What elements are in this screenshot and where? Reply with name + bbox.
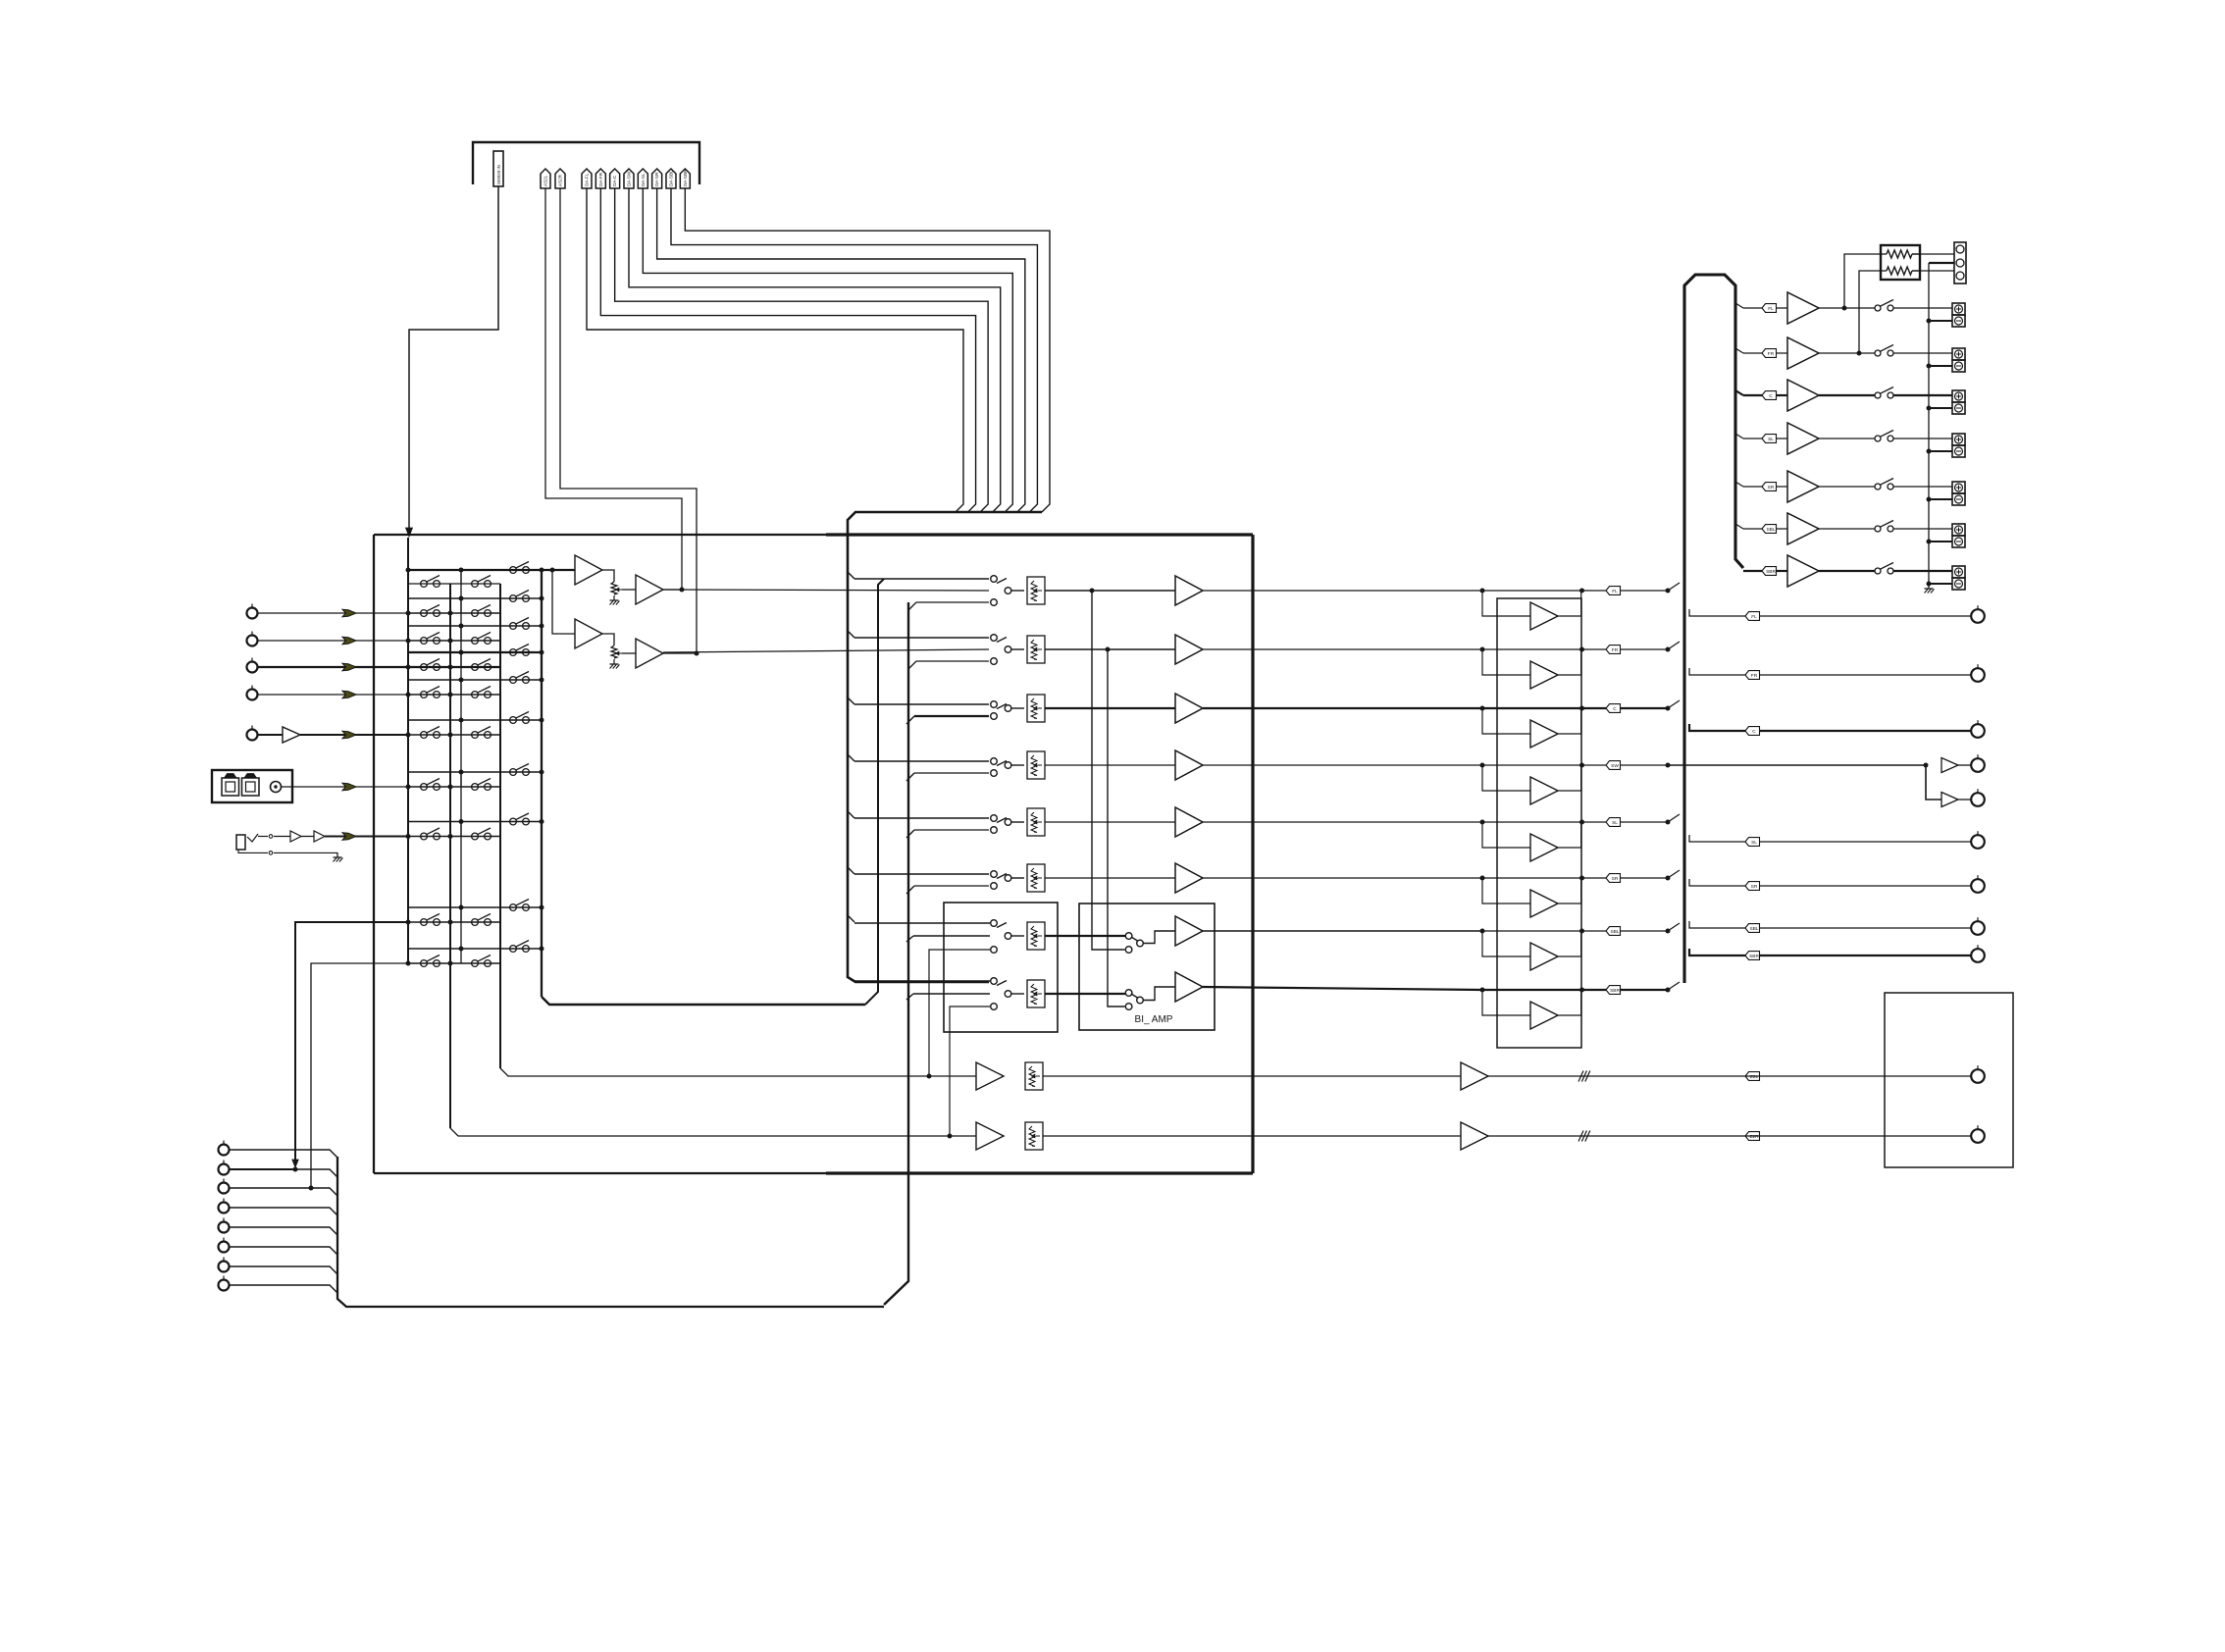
wire J1 to selector	[258, 612, 408, 614]
wire flag to amp	[1777, 307, 1788, 309]
wire flag to amp	[1777, 486, 1788, 488]
wire R-load2 out	[1912, 270, 1954, 272]
jack preout FL	[1971, 609, 1985, 623]
node row9 listen-bus	[540, 947, 544, 952]
switch row4 rec-a	[408, 694, 500, 696]
pot volume5	[1027, 808, 1045, 836]
wire row3 top feed	[854, 703, 989, 705]
pot fvol1	[1027, 922, 1045, 950]
wire J3 to selector	[258, 666, 408, 668]
switch row5 listen	[408, 719, 542, 721]
wire multi-in FR	[230, 1168, 295, 1170]
jack J1 CD L	[247, 608, 258, 619]
switch row8 listen	[408, 906, 542, 908]
wire fvol2 out	[1045, 993, 1125, 995]
wire zone1 out	[1488, 1075, 1971, 1077]
buffer U2b	[636, 639, 663, 668]
wire tap to buffer2	[552, 570, 575, 634]
node fb-SBR out	[1579, 988, 1584, 993]
wire FR sense	[1859, 271, 1881, 353]
flag preout SR	[1745, 882, 1760, 891]
connector flag DA-SBR	[680, 169, 690, 188]
flag preout SBL	[1745, 924, 1760, 933]
connector flag DA-SBL	[666, 169, 676, 188]
switch row1 listen	[408, 597, 542, 599]
wire row4 stubs	[407, 680, 409, 695]
wire FR to bus	[1668, 642, 1680, 649]
buffer U5a	[283, 727, 300, 743]
wire fb-C out	[1482, 707, 1606, 709]
flag amp SBR	[1762, 567, 1777, 576]
wire J2 to selector	[258, 640, 408, 642]
wire biamp1 out	[1203, 930, 1482, 932]
wire relay to terminal SBL	[1893, 528, 1952, 530]
bus tap vertical	[460, 570, 462, 949]
speaker terminal FL	[1952, 303, 1965, 315]
wire terminal return C	[1929, 407, 1952, 409]
optical port 2	[242, 778, 260, 796]
node row0	[406, 568, 411, 573]
buffer fb-SL	[1482, 822, 1530, 848]
svg-text:DA-SW: DA-SW	[626, 171, 631, 186]
flag C	[1606, 704, 1621, 713]
node arrow digital	[342, 783, 356, 791]
buffer U6b	[314, 831, 325, 842]
wire DA-FR route	[600, 188, 975, 512]
switch row3 listen	[408, 651, 542, 653]
node SR split	[1666, 876, 1671, 881]
node fb-SW in	[1480, 763, 1485, 768]
jack preout SR	[1971, 879, 1985, 893]
svg-text:Z2R: Z2R	[1749, 1134, 1759, 1140]
wire fb-SR out	[1482, 877, 1606, 879]
wire DM939_IN to main-in	[409, 186, 498, 530]
buffer fb-SBL	[1482, 931, 1530, 956]
node row3 taps	[406, 665, 411, 670]
node wiper2	[616, 651, 620, 655]
wire terminal return SBR	[1929, 583, 1952, 585]
wire row1 to buffer	[1045, 590, 1175, 592]
wire U2a out	[663, 589, 682, 591]
wire rec2-bus to zone1	[500, 1068, 976, 1076]
wire row2 to buffer	[1045, 648, 1175, 650]
wire speaker common	[1929, 262, 1954, 264]
wire flag to amp	[1777, 570, 1788, 572]
wire DA-C route	[615, 188, 988, 512]
wire multi-in SBL	[230, 1266, 337, 1274]
wire fb-FL out	[1482, 590, 1606, 592]
svg-text:C: C	[1752, 729, 1756, 735]
wire buffer to selector	[300, 734, 408, 736]
node arrow J1	[342, 609, 356, 617]
switch SW-f1	[991, 920, 998, 927]
svg-text:DA-FR: DA-FR	[598, 172, 603, 186]
wire amp SBR stub	[1743, 570, 1762, 572]
switch row9 listen	[408, 948, 542, 950]
pot zone1	[1025, 1062, 1043, 1090]
connector flag AS2R	[555, 169, 565, 188]
speaker terminal SL	[1952, 434, 1965, 445]
buffer fb-C	[1482, 708, 1530, 734]
node fb-SL in	[1480, 820, 1485, 825]
wire to buffer	[274, 836, 290, 838]
node row9 taps	[406, 961, 411, 966]
wire amp FL stub	[1735, 303, 1743, 308]
buffer sw-b	[1941, 793, 1958, 807]
node fb-C out	[1579, 706, 1584, 711]
pot VR1	[611, 582, 617, 594]
wire row5 to buffer	[1045, 821, 1175, 823]
buffer vol1	[1175, 576, 1203, 605]
jack portable-in	[236, 835, 245, 850]
buffer U1a	[575, 555, 602, 585]
wire SW line	[1668, 764, 1926, 766]
svg-text:Z2L: Z2L	[1750, 1074, 1759, 1080]
jack multi-in SL	[219, 1222, 230, 1233]
connector flag DA-FL	[582, 169, 592, 188]
optical input module	[212, 770, 292, 802]
buffer fb-SR	[1482, 878, 1530, 903]
node row1 listen-bus	[540, 596, 544, 601]
wire multi-in SBR	[230, 1285, 337, 1293]
wire row4 top feed	[854, 760, 989, 762]
flag Z2L	[1745, 1072, 1760, 1081]
node fb-FL in	[1480, 589, 1485, 594]
wire row1 out	[1203, 590, 1482, 592]
speaker terminal SBL	[1952, 524, 1965, 536]
speaker terminal SR	[1952, 482, 1965, 493]
wire multi-in SW	[230, 1208, 337, 1215]
load resistor block	[1881, 245, 1920, 280]
wire zone2	[1043, 1135, 1461, 1137]
bus direct vertical	[884, 602, 908, 1305]
buffer vol6	[1175, 863, 1203, 893]
svg-text:SBL: SBL	[1749, 926, 1758, 932]
node row6 taps	[406, 785, 411, 790]
switch row0 rec	[408, 583, 500, 585]
svg-text:SBR: SBR	[1749, 954, 1759, 959]
wire biamp1 common	[1143, 931, 1175, 944]
switch biamp2	[1125, 990, 1132, 997]
svg-text:SBR: SBR	[1766, 569, 1776, 575]
node arrow J2	[342, 637, 356, 645]
switch SW-in3	[991, 701, 998, 708]
buffer fb-SBR	[1482, 990, 1530, 1015]
wire relay to terminal SBR	[1893, 570, 1952, 572]
flag amp FL	[1762, 304, 1777, 313]
wire rec1-bus to zone2	[450, 1128, 976, 1136]
buffer vol3	[1175, 694, 1203, 723]
wire subrow2 zone tap	[950, 1007, 990, 1136]
wire amp out SR	[1819, 486, 1875, 488]
jump zone1	[1578, 1071, 1583, 1082]
node fb-FL out	[1579, 589, 1584, 594]
wire row6 out	[1203, 877, 1482, 879]
svg-text:DA-SL: DA-SL	[641, 173, 646, 186]
connector flag DA-SL	[638, 169, 647, 188]
buffer U6a	[290, 831, 301, 842]
jack coax digital	[271, 782, 282, 793]
wire row3 stubs	[407, 652, 409, 667]
wire row5 top feed	[854, 817, 989, 819]
wire fb-SL out	[1482, 821, 1606, 823]
wire flag to amp	[1777, 438, 1788, 439]
flag SR	[1606, 874, 1621, 883]
node arrow J3	[342, 663, 356, 671]
node row1 taps	[406, 611, 411, 616]
power amp FL	[1787, 292, 1819, 324]
wire sw branch	[1926, 765, 1941, 800]
buffer fb-FL	[1482, 591, 1530, 616]
wire FL to bus	[1668, 583, 1680, 591]
jack preout SBL	[1971, 921, 1985, 935]
buffer U1b	[575, 619, 602, 648]
wire row2 stubs	[407, 626, 409, 641]
node row7 listen-bus	[540, 819, 544, 824]
svg-text:DA-SBR: DA-SBR	[683, 169, 688, 186]
wire amp out SBL	[1819, 528, 1875, 530]
node fb-FR out	[1579, 647, 1584, 652]
pot volume3	[1027, 695, 1045, 722]
wire subrow1 zone tap	[929, 950, 990, 1076]
wire wiper to U2b	[622, 652, 636, 654]
node multi L arrow	[292, 1160, 298, 1167]
svg-text:SBL: SBL	[1766, 527, 1775, 533]
wire preout SBR	[1689, 949, 1745, 955]
node C split	[1666, 706, 1671, 711]
resistor R-load2	[1881, 270, 1887, 272]
wire FR biamp feed	[1108, 649, 1125, 1007]
wire row1 down feed	[916, 601, 989, 603]
buffer zone1b	[1461, 1062, 1488, 1090]
wire to selector	[325, 836, 408, 838]
wire row5 out	[1203, 821, 1482, 823]
switch relay SR	[1875, 484, 1881, 490]
switch row3 rec-a	[408, 666, 500, 668]
wire row1 analog feed	[663, 590, 989, 591]
zone2 output block	[1885, 993, 2013, 1167]
flag amp SBL	[1762, 525, 1777, 534]
connector flag DA-C	[610, 169, 620, 188]
wire row5 bottom feed	[914, 829, 989, 831]
node SW split	[1666, 763, 1671, 768]
flag preout FL	[1745, 612, 1760, 621]
bus power-amp loop	[1684, 275, 1743, 983]
buffer zone2b	[1461, 1122, 1488, 1150]
flag Z2R	[1745, 1132, 1760, 1141]
wire relay to terminal FR	[1893, 352, 1952, 354]
wire row2 down feed	[916, 660, 989, 662]
svg-text:DA-SBL: DA-SBL	[668, 170, 673, 186]
wire row4 to buffer	[1045, 764, 1175, 766]
wire multi-in FL	[230, 1150, 337, 1158]
wire fvol1 out	[1045, 935, 1125, 937]
wire row2 analog feed	[663, 649, 989, 652]
wire DA-SBR route	[685, 188, 1050, 512]
wire row2 out	[1203, 648, 1482, 650]
wire terminal return FL	[1929, 320, 1952, 322]
node multi R tap	[309, 1186, 314, 1191]
node SBR split	[1666, 988, 1671, 993]
svg-text:SR: SR	[1768, 485, 1775, 490]
buffer zone2a	[976, 1122, 1004, 1150]
wire DA-SW route	[629, 188, 1001, 512]
pot volume4	[1027, 751, 1045, 779]
wire buffer1	[602, 570, 614, 582]
svg-text:DA-SR: DA-SR	[654, 172, 659, 186]
wire preout C	[1689, 724, 1745, 731]
wire SBL to bus	[1668, 923, 1680, 931]
terminal block AB	[1954, 242, 1966, 284]
pot volume2	[1027, 636, 1045, 663]
node arrow J4	[342, 691, 356, 698]
wire elbow riser to row1	[865, 579, 884, 1005]
ground VR1	[613, 595, 615, 600]
wire fb-FR out	[1482, 648, 1606, 650]
node fb-SR out	[1579, 876, 1584, 881]
bus rec-2 vertical	[499, 584, 501, 1068]
switch SW-in2	[991, 635, 998, 642]
power amp SL	[1787, 423, 1819, 454]
node FL split	[1666, 589, 1671, 594]
wire DA-SBL route	[671, 188, 1037, 512]
front volume sub-block	[944, 903, 1058, 1032]
wire subrow1 dsp feed	[854, 922, 990, 924]
switch row7 rec-a	[408, 836, 500, 838]
power amp SR	[1787, 471, 1819, 502]
node row7 taps	[406, 834, 411, 839]
wire amp out SL	[1819, 438, 1875, 439]
wire row2 dsp feed	[854, 637, 989, 639]
switch SW-in5	[991, 815, 998, 822]
wire preout SR	[1689, 879, 1745, 886]
flag SBR	[1606, 986, 1621, 995]
wire amp out C	[1819, 394, 1875, 396]
buffer sw-a	[1941, 758, 1958, 773]
pot volume6	[1027, 864, 1045, 892]
wire amp C stub	[1735, 390, 1743, 395]
wire wiper to U2a	[622, 589, 636, 591]
wire DA-SL route	[643, 188, 1012, 512]
wire flag to amp	[1777, 528, 1788, 530]
bus speaker return	[1928, 263, 1930, 587]
wire DA-SR route	[657, 188, 1025, 512]
wire subrow1 analog feed	[906, 936, 913, 942]
jack multi-in FL	[219, 1145, 230, 1156]
wire row6 to buffer	[1045, 877, 1175, 879]
jack multi-in SBR	[219, 1280, 230, 1291]
wire relay to terminal SL	[1893, 438, 1952, 439]
flag FL	[1606, 587, 1621, 595]
svg-text:C: C	[1613, 706, 1617, 712]
wire zone1	[1043, 1075, 1461, 1077]
wire top bracket	[473, 142, 699, 184]
flag SL	[1606, 818, 1621, 827]
wire row9 stubs	[407, 949, 409, 963]
node row2 listen-bus	[540, 624, 544, 629]
wire row0 stubs	[407, 570, 409, 584]
wire DA branch stubs	[847, 571, 854, 579]
jack multi-in C	[219, 1183, 230, 1194]
wire from multi-in L	[295, 922, 408, 1163]
wire FL biamp feed	[1092, 591, 1125, 950]
switch row2 rec-a	[408, 640, 500, 642]
svg-text:SL: SL	[1768, 437, 1774, 442]
wire relay to terminal FL	[1893, 307, 1952, 309]
flag amp FR	[1762, 349, 1777, 358]
wire row6 bottom feed	[914, 885, 989, 887]
jack preout C	[1971, 724, 1985, 738]
wire J5 to buffer	[258, 734, 283, 736]
jack zone2 L	[1971, 1069, 1985, 1083]
wire flag to amp	[1777, 394, 1788, 396]
switch SW-in1	[991, 576, 998, 583]
wire amp SBL stub	[1735, 524, 1743, 529]
switch row9 rec-a	[408, 962, 500, 964]
svg-text:SL: SL	[1751, 840, 1757, 846]
wire row6 stubs	[407, 772, 409, 787]
wire U2b out	[663, 652, 697, 654]
bus listen vertical	[541, 570, 543, 997]
node amp FR sense	[1857, 351, 1862, 356]
connector flag DM939_IN	[493, 151, 503, 186]
buffer zone1a	[976, 1062, 1004, 1090]
wire SR to bus	[1668, 870, 1680, 878]
node fb-SBR in	[1480, 988, 1485, 993]
speaker terminal SBR	[1952, 566, 1965, 578]
flag preout SL	[1745, 838, 1760, 847]
wire row1 stubs	[407, 598, 409, 613]
jack preout SW2	[1958, 799, 1971, 800]
BI_AMP block	[1079, 903, 1215, 1030]
node row6 listen-bus	[540, 770, 544, 775]
switch row6 rec-a	[408, 786, 500, 788]
switch row7 listen	[408, 821, 542, 823]
wire AS2L to buffer output	[545, 188, 682, 590]
jack J3 TV	[247, 662, 258, 673]
switch relay FR	[1875, 350, 1881, 356]
wire fb-SBL out	[1482, 930, 1606, 932]
wire J4 to selector	[258, 694, 408, 696]
jack multi-in SBL	[219, 1262, 230, 1272]
switch row4 listen	[408, 679, 542, 681]
node fb-SR in	[1480, 876, 1485, 881]
jack J2 CD R	[247, 636, 258, 646]
flag FR	[1606, 645, 1621, 654]
connector flag DA-FR	[595, 169, 605, 188]
switch row5 rec-a	[408, 734, 500, 736]
switch relay SBL	[1875, 526, 1881, 532]
switch SW-f2	[991, 978, 998, 985]
node SL split	[1666, 820, 1671, 825]
wire amp out SBR	[1819, 570, 1875, 572]
wire subrow2 dsp feed	[854, 980, 990, 982]
bus rec-1 vertical	[449, 584, 451, 1128]
node fb-C in	[1480, 706, 1485, 711]
node fb-SL out	[1579, 820, 1584, 825]
node row4 taps	[406, 693, 411, 697]
switch detect	[247, 834, 258, 842]
node FR split	[1666, 647, 1671, 652]
svg-text:FL: FL	[1768, 306, 1774, 312]
ground speaker return	[1928, 584, 1930, 589]
wire buffer2	[602, 634, 614, 645]
wire biamp2 out	[1203, 987, 1482, 990]
node row5 listen-bus	[540, 718, 544, 723]
wire flag to amp	[1777, 352, 1788, 354]
power amp SBR	[1787, 555, 1819, 587]
switch relay SBR	[1875, 568, 1881, 574]
